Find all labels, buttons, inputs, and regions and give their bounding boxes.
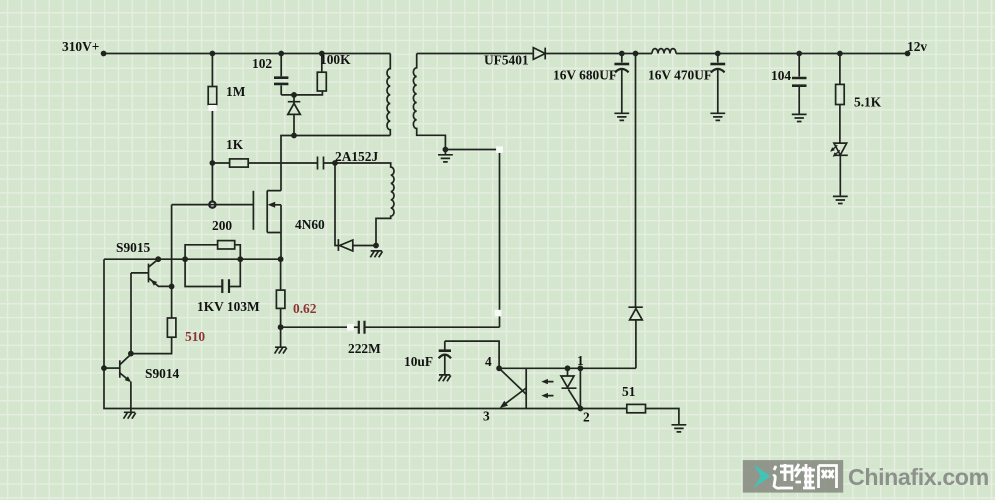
wire 12v rail [545,53,652,55]
ground 0.62 [275,347,287,353]
svg-text:Chinafix.com: Chinafix.com [848,464,989,490]
svg-text:51: 51 [622,384,635,399]
svg-text:16V 680UF: 16V 680UF [553,68,617,83]
wire S9014 emitter to rail and ground [130,382,132,413]
selection handle under 1M [208,105,216,111]
svg-text:16V 470UF: 16V 470UF [648,68,712,83]
feedback winding 2A152J loop [335,163,394,246]
svg-text:200: 200 [212,218,232,233]
ground feedback [370,251,382,257]
LED indicator [834,143,847,155]
inductor L1 [652,49,676,54]
svg-text:S9015: S9015 [116,240,151,255]
svg-text:0.62: 0.62 [293,301,317,316]
diode feedback top [630,309,643,320]
opto LED [562,368,581,408]
watermark chinese characters [773,464,837,488]
svg-text:4N60: 4N60 [295,217,325,232]
ground LED [833,196,848,203]
transformer T1 primary winding [387,54,390,136]
ground 680UF [614,113,629,120]
selection handle on wire corner [496,146,503,153]
resistor 1M [211,54,213,164]
wire S9015 base down [130,273,132,354]
svg-text:2: 2 [583,410,590,425]
transistor 4N60 MOSFET [252,191,254,230]
capacitor 16V 680UF [621,54,623,114]
wire drain to snubber line [281,136,390,191]
diode feedback rectifier [340,240,353,251]
wire secondary to feedback divider [445,150,499,328]
svg-text:100K: 100K [320,52,351,67]
watermark chevron [754,465,771,489]
capacitor 2A152J [318,157,336,170]
watermark box [743,460,843,493]
capacitor 10uF [445,341,499,368]
svg-text:102: 102 [252,56,272,71]
resistor 510 [167,318,176,337]
svg-text:UF5401: UF5401 [484,53,529,68]
svg-text:1M: 1M [226,84,246,99]
resistor 1K [212,162,317,164]
opto light arrows [545,382,554,396]
wire diode node [335,163,376,246]
ground secondary [444,150,446,155]
transformer T1 secondary winding [413,54,445,150]
svg-text:510: 510 [185,329,205,344]
svg-text:1KV 103M: 1KV 103M [197,299,260,314]
optocoupler U1 body [499,368,580,408]
junction gate node (hollow) [209,202,215,208]
svg-text:S9014: S9014 [145,366,180,381]
capacitor 222M [281,326,500,328]
svg-text:3: 3 [483,409,490,424]
resistor 100K [321,54,323,73]
opto phototransistor [499,368,526,406]
diode clamp snubber [288,95,301,136]
ground 470UF [710,113,725,120]
resistor 200 [185,245,240,259]
svg-text:5.1K: 5.1K [854,95,882,110]
ground 104 [792,114,807,121]
capacitor 16V 470UF [717,54,719,114]
capacitor 102 [281,54,322,95]
svg-text:4: 4 [485,354,492,369]
wire left collector line [104,258,281,260]
svg-text:310V+: 310V+ [62,39,99,54]
selection handle on vertical wire [495,310,502,317]
wire gate node to S9015 branch [172,205,254,318]
wire left rail and bottom rail [104,259,580,408]
resistor 5.1K [839,54,841,144]
resistor 0.62 [280,259,282,347]
wire 1M to gate node [211,163,213,205]
svg-text:1: 1 [577,353,584,368]
wire secondary top to diode [417,53,534,55]
svg-text:1K: 1K [226,137,244,152]
svg-text:104: 104 [771,68,791,83]
wire 310V+ top rail [104,53,391,55]
svg-text:12v: 12v [907,39,927,54]
wire feedback tap [635,54,637,308]
ground S9014 emitter [124,412,136,418]
resistor 51 [580,409,679,425]
svg-text:10uF: 10uF [404,354,433,369]
diode UF5401 [533,48,545,60]
capacitor 1KV 103M [185,259,240,286]
ground 10uF [439,375,451,381]
selection handle on 222M wire [347,324,354,331]
capacitor 104 [798,54,800,115]
svg-text:222M: 222M [348,341,381,356]
svg-text:2A152J: 2A152J [335,149,378,164]
ground 51 [672,425,687,432]
